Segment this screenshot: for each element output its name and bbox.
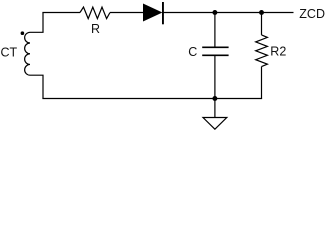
wire bottom rail [42, 98, 262, 100]
resistor R2 [256, 35, 268, 67]
svg-text:C: C [188, 45, 197, 59]
wire capacitor bottom stub [214, 55, 216, 98]
wire R to diode [110, 12, 143, 14]
wire diode to ZCD output [163, 12, 294, 14]
node junction capacitor top [212, 10, 217, 15]
wire top rail left segment [42, 12, 80, 14]
node junction ground [212, 96, 217, 101]
capacitor C bottom plate [202, 54, 228, 56]
wire CT top to top rail [30, 13, 43, 33]
wire ground stub [214, 99, 216, 118]
svg-text:CT: CT [1, 46, 18, 60]
transformer secondary winding CT [25, 32, 30, 75]
resistor R [80, 7, 110, 19]
capacitor C top plate [202, 46, 228, 48]
wire R2 bottom stub [261, 67, 263, 99]
diode D1 cathode bar [162, 2, 164, 24]
node junction R2 top [259, 10, 264, 15]
svg-text:ZCD: ZCD [299, 7, 325, 21]
svg-text:R: R [91, 22, 100, 36]
diode D1 anode triangle [143, 4, 162, 22]
wire R2 top stub [261, 13, 263, 35]
ground symbol [203, 118, 227, 130]
wire CT bottom to bottom rail [30, 75, 43, 98]
wire capacitor top stub [214, 13, 216, 48]
polarity dot [21, 31, 25, 35]
svg-text:R2: R2 [270, 45, 286, 59]
